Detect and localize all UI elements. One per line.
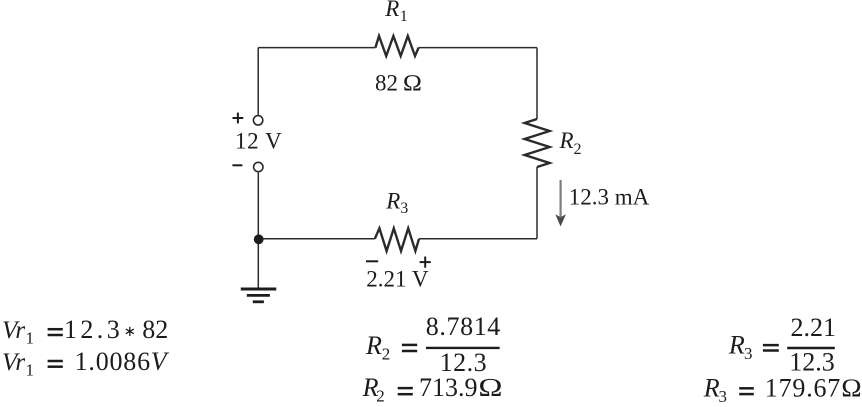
svg-text:2: 2: [382, 345, 391, 364]
svg-text:179.67: 179.67: [765, 373, 841, 402]
svg-text:2.21: 2.21: [791, 313, 837, 342]
svg-text:Ω: Ω: [841, 373, 862, 402]
svg-text:12.3: 12.3: [789, 348, 835, 377]
svg-text:1.0086: 1.0086: [75, 347, 151, 376]
svg-text:82: 82: [375, 71, 398, 96]
svg-text:1: 1: [26, 329, 35, 348]
svg-text:713.9: 713.9: [419, 373, 478, 402]
svg-text:3: 3: [400, 200, 408, 217]
svg-text:2: 2: [574, 141, 582, 158]
svg-text:V: V: [151, 347, 170, 376]
svg-text:12.3 mA: 12.3 mA: [569, 185, 650, 210]
svg-text:3: 3: [719, 387, 728, 406]
svg-text:12 V: 12 V: [235, 129, 282, 154]
svg-text:2.21 V: 2.21 V: [366, 267, 429, 292]
svg-text:Ω: Ω: [403, 71, 423, 96]
svg-text:1: 1: [26, 360, 35, 379]
svg-text:Ω: Ω: [478, 373, 503, 402]
svg-text:R: R: [728, 331, 745, 360]
svg-text:R: R: [703, 374, 720, 403]
svg-text:R: R: [365, 331, 382, 360]
svg-text:Vr: Vr: [2, 349, 25, 376]
svg-text:1: 1: [400, 8, 408, 25]
svg-text:R: R: [385, 189, 400, 214]
svg-text:8.7814: 8.7814: [426, 312, 501, 341]
svg-text:2: 2: [376, 386, 385, 405]
svg-text:12.3: 12.3: [64, 315, 123, 344]
svg-text:Vr: Vr: [2, 317, 25, 344]
svg-text:82: 82: [142, 315, 168, 344]
svg-text:R: R: [559, 128, 574, 153]
svg-text:R: R: [384, 0, 399, 21]
svg-text:3: 3: [744, 344, 753, 363]
